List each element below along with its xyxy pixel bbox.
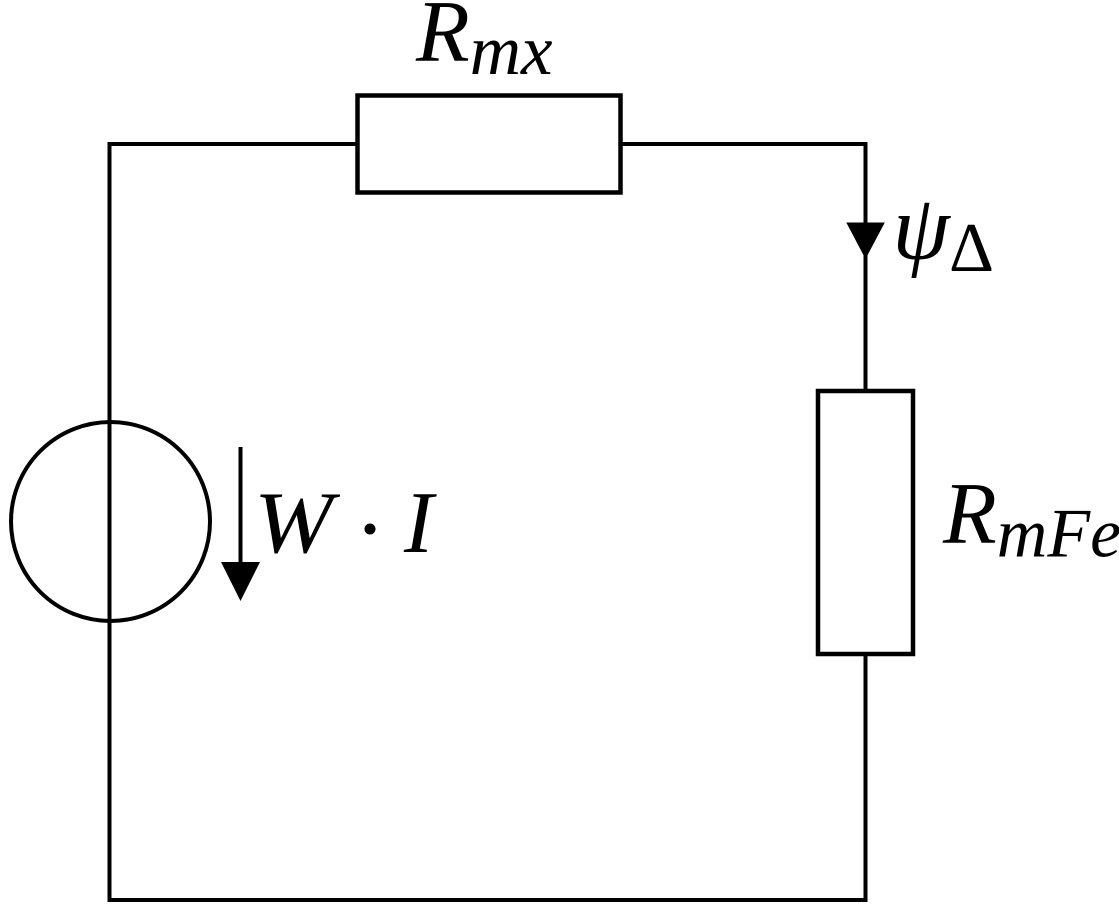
svg-text:I: I xyxy=(403,475,437,572)
flux arrow head (psi direction) xyxy=(846,223,885,260)
arrow W*I shaft xyxy=(239,447,243,566)
wire top-right + right-upper segment xyxy=(621,144,866,391)
arrow W*I head xyxy=(221,562,260,601)
svg-text:Rmx: Rmx xyxy=(415,0,553,90)
svg-text:Δ: Δ xyxy=(949,210,994,287)
svg-text:W: W xyxy=(254,475,340,572)
resistor RmFe xyxy=(818,391,913,654)
wire left + bottom + right-lower segment xyxy=(110,144,866,900)
source circle (MMF source W*I) xyxy=(11,422,210,621)
svg-text:ψ: ψ xyxy=(893,177,952,279)
resistor Rmx xyxy=(358,96,621,193)
